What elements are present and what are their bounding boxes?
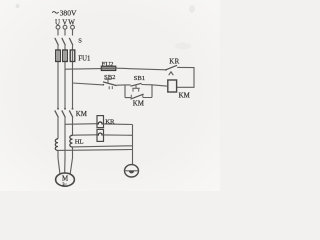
svg-text:FU2: FU2 [102, 61, 114, 68]
svg-text:HL: HL [75, 138, 84, 145]
svg-text:380V: 380V [60, 8, 77, 17]
svg-text:V: V [62, 18, 67, 26]
svg-text:SB2: SB2 [104, 74, 116, 81]
svg-text:3~: 3~ [62, 181, 67, 186]
svg-text:U: U [55, 18, 60, 26]
svg-text:KR: KR [169, 58, 180, 65]
svg-text:SB1: SB1 [134, 75, 146, 82]
svg-text:KM: KM [179, 92, 190, 99]
svg-text:S: S [78, 38, 82, 45]
svg-text:KM: KM [133, 100, 144, 107]
svg-text:KM: KM [76, 111, 87, 118]
svg-text:KR: KR [105, 119, 115, 126]
svg-text:W: W [68, 18, 75, 26]
svg-text:FU1: FU1 [78, 56, 90, 63]
